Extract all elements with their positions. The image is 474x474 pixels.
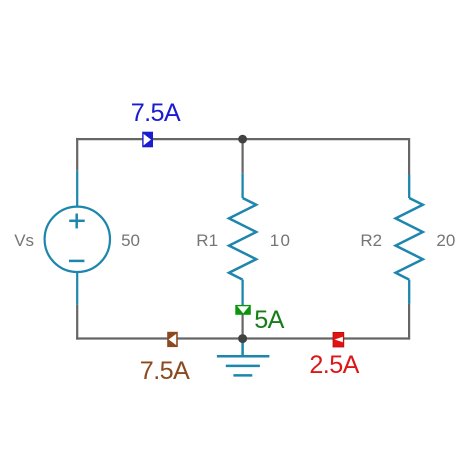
current arrow green (below R1, pointing down) [235,305,251,315]
ground [217,341,270,375]
voltage source Vs [45,171,110,305]
svg-text:10: 10 [270,231,291,250]
wire right vertical bottom segment [408,304,410,340]
svg-text:R2: R2 [360,231,382,250]
current arrow red (bottom-right wire, pointing left) [333,332,344,347]
junction top [238,135,247,144]
svg-text:50: 50 [121,231,140,250]
current arrow blue (top wire, pointing right) [142,132,153,148]
wire top horizontal [76,138,409,140]
junction bottom [238,334,247,343]
wire bottom horizontal [76,337,409,339]
svg-text:7.5A: 7.5A [140,357,190,385]
wire left vertical bottom segment [76,305,78,340]
svg-text:R1: R1 [196,231,218,250]
svg-text:20: 20 [436,231,455,250]
wire left vertical top segment [76,138,78,171]
resistor R1 [229,173,256,305]
svg-text:5A: 5A [254,306,284,334]
resistor R2 [396,175,423,304]
wire middle vertical bottom segment [242,310,244,339]
current arrow brown (bottom-left wire, pointing left) [167,332,178,347]
wire middle vertical top segment [242,139,244,173]
svg-text:Vs: Vs [14,231,34,250]
svg-text:7.5A: 7.5A [131,99,181,127]
svg-text:2.5A: 2.5A [309,351,359,379]
wire right vertical top segment [408,138,410,175]
